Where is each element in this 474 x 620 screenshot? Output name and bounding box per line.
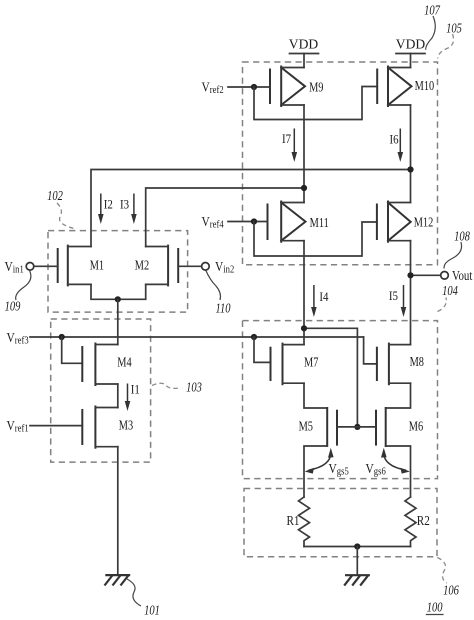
svg-text:106: 106	[443, 582, 459, 598]
wire Vref2 to M9 gate	[228, 86, 270, 88]
terminal Vin2	[202, 263, 210, 271]
leader 102 dashed to box	[57, 203, 74, 229]
wire M6 source down to R2	[386, 446, 411, 497]
leader 110 to Vin2	[206, 271, 221, 301]
dashed box 104 (output stage block)	[243, 321, 438, 479]
wire Vref3 rail	[30, 336, 364, 338]
leader 103 dashed to box	[152, 383, 181, 388]
current arrow I7	[292, 129, 298, 163]
svg-text:110: 110	[215, 300, 230, 316]
resistor R2	[405, 497, 416, 547]
svg-text:M8: M8	[410, 354, 424, 370]
wire M3 source down to ground	[117, 447, 119, 574]
svg-text:100: 100	[427, 599, 443, 615]
leader 105 dashed to box	[438, 34, 454, 59]
wire M7 gate riser from Vref3	[254, 337, 271, 362]
svg-text:105: 105	[446, 20, 462, 36]
svg-text:M2: M2	[135, 257, 149, 273]
terminal Vin1	[26, 263, 34, 271]
dashed box 102 (input pair block)	[48, 231, 188, 313]
wire W1 from M1 drain up and across to M10 column	[91, 170, 411, 247]
wire M8 source to M6 drain	[386, 383, 411, 408]
wire M7 source jog to M5 drain	[304, 383, 327, 408]
ground symbol right	[344, 575, 370, 585]
wire M1 source to tail node	[91, 284, 118, 299]
wire M4 gate riser	[62, 337, 83, 363]
transistor M9	[270, 67, 305, 107]
current arrow I3	[131, 194, 137, 225]
leader 109 to Vin1	[16, 271, 31, 301]
svg-text:M7: M7	[304, 354, 318, 370]
svg-text:I1: I1	[131, 382, 140, 397]
current arrow I6	[398, 129, 404, 163]
transistor M12	[377, 202, 411, 242]
dashed box 103 (bias current source block)	[51, 319, 151, 462]
wire gate link M11 to M12	[254, 222, 377, 257]
wire Vout tap	[411, 274, 441, 276]
wire M2 gate to Vin2	[178, 265, 201, 267]
leader 104 dashed to box	[438, 298, 447, 312]
wire Vref4 to M11 gate	[228, 221, 268, 223]
dashed box 106 (resistor block)	[244, 489, 437, 557]
Vgs5 curved arrow	[305, 448, 334, 474]
svg-text:I6: I6	[389, 131, 398, 146]
leader 106 dashed to box	[437, 558, 447, 584]
current arrow I5	[401, 285, 407, 317]
svg-text:I4: I4	[319, 289, 328, 304]
svg-text:103: 103	[186, 379, 202, 395]
svg-text:I5: I5	[389, 288, 398, 303]
node Vref2 tap	[251, 84, 257, 90]
wire M10 source down to M12 drain	[410, 105, 412, 203]
wire lineA M11 drain node to M5/M6 gates	[304, 328, 357, 427]
node Vref3-M4 tap	[59, 334, 65, 340]
svg-text:M11: M11	[310, 214, 329, 230]
current arrow I4	[311, 285, 317, 317]
transistor M6 (gate on left)	[357, 408, 385, 446]
wire tail down to M4 drain	[117, 299, 119, 344]
wire M8 gate riser from Vref3	[364, 337, 377, 364]
VDD supply symbol left	[290, 53, 319, 55]
svg-text:I2: I2	[104, 197, 113, 212]
wire bottom rail R1 to R2	[304, 546, 411, 548]
svg-text:M4: M4	[117, 354, 131, 370]
node W2-M9 junction	[301, 185, 307, 191]
terminal Vout	[441, 272, 449, 280]
wire M5 source down to R1	[304, 446, 327, 497]
node lineA junction	[301, 325, 307, 331]
svg-text:VDD: VDD	[289, 37, 318, 52]
wire VDD to M9 drain	[303, 54, 305, 68]
svg-text:M6: M6	[409, 418, 423, 434]
label 100 underline	[426, 614, 444, 616]
node Vout junction	[407, 272, 413, 278]
leader 107 to VDD	[426, 16, 436, 50]
node bottom rail junction	[354, 543, 360, 549]
leader 101 to ground	[127, 579, 141, 606]
ground symbol left	[105, 575, 131, 585]
svg-text:I7: I7	[282, 131, 291, 146]
wire M11 source down to M7 drain	[303, 241, 305, 345]
transistor M7	[271, 344, 305, 385]
svg-text:R1: R1	[286, 513, 299, 528]
current arrow I2	[98, 194, 104, 225]
svg-text:M3: M3	[119, 417, 133, 433]
leader 108 to Vout	[444, 242, 462, 269]
node M5/M6 gate junction	[354, 424, 360, 430]
Vgs6 curved arrow	[381, 448, 410, 474]
transistor M3	[82, 407, 118, 448]
svg-text:M1: M1	[90, 257, 104, 273]
node tail junction	[115, 296, 121, 302]
svg-text:M12: M12	[414, 214, 434, 230]
node Vref3-M7 tap	[251, 334, 257, 340]
dashed box 105 (cascode current mirror block)	[243, 62, 438, 265]
transistor M8	[377, 344, 411, 385]
wire Vin1 to M1 gate	[34, 265, 58, 267]
svg-text:M10: M10	[415, 78, 435, 94]
svg-text:I3: I3	[120, 197, 129, 212]
node Vref4 tap	[251, 218, 257, 224]
transistor M2	[146, 246, 179, 286]
node W1-M10 junction	[407, 166, 413, 172]
wire gate link M9 to M10	[254, 87, 377, 120]
VDD supply symbol right	[396, 53, 425, 55]
transistor M11	[268, 202, 306, 242]
transistor M1	[58, 246, 91, 286]
wire M4 source to M3 drain	[117, 384, 119, 408]
transistor M10	[377, 67, 411, 107]
transistor M5 (gate on right)	[327, 408, 357, 446]
current arrow I1	[125, 384, 131, 412]
wire to right ground	[356, 547, 358, 575]
svg-text:VDD: VDD	[396, 37, 425, 52]
wire VDD to M10 drain	[410, 54, 412, 68]
svg-text:101: 101	[144, 602, 160, 618]
svg-text:R2: R2	[417, 513, 430, 528]
svg-text:104: 104	[442, 283, 458, 299]
svg-text:108: 108	[454, 228, 470, 244]
svg-text:102: 102	[47, 188, 63, 204]
svg-text:M5: M5	[299, 418, 313, 434]
wire W2 from M2 drain up and across to M9 column	[146, 188, 304, 247]
wire M9 source down to M11 drain	[303, 105, 305, 203]
wire M2 source to tail node	[118, 284, 146, 299]
wire Vref1 to M3 gate	[30, 425, 82, 427]
svg-text:Vout: Vout	[452, 268, 473, 284]
svg-text:109: 109	[5, 298, 21, 314]
resistor R1	[299, 497, 310, 547]
wire M12 source down to M8 drain	[410, 241, 412, 345]
transistor M4	[82, 344, 118, 386]
svg-text:107: 107	[424, 2, 441, 18]
svg-text:M9: M9	[309, 79, 323, 95]
